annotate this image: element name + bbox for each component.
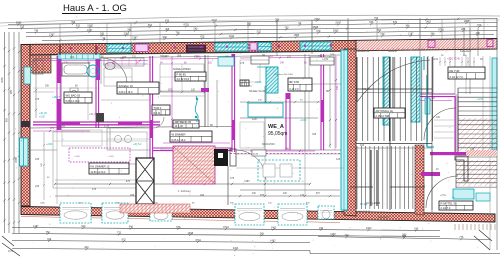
- svg-text:+46_5m: +46_5m: [133, 144, 141, 146]
- svg-text:405: 405: [360, 144, 365, 147]
- svg-text:40,26: 40,26: [253, 154, 259, 156]
- svg-text:Haus A - 1. OG: Haus A - 1. OG: [63, 3, 127, 14]
- svg-text:245: 245: [35, 158, 40, 161]
- svg-text:2403: 2403: [233, 247, 239, 250]
- svg-text:Schlafen W 240: Schlafen W 240: [249, 91, 266, 93]
- svg-text:938: 938: [130, 194, 135, 197]
- svg-text:875: 875: [393, 21, 398, 24]
- svg-text:243: 243: [319, 227, 324, 230]
- svg-text:W200/700: W200/700: [358, 50, 370, 53]
- svg-text:8,0 11: 8,0 11: [154, 112, 161, 115]
- svg-text:405,05m: 405,05m: [362, 88, 372, 91]
- svg-text:875: 875: [200, 35, 205, 38]
- svg-text:905: 905: [6, 117, 9, 122]
- svg-text:2,06: 2,06: [242, 79, 248, 83]
- svg-text:1080: 1080: [40, 203, 46, 205]
- svg-text:+4,85: +4,85: [74, 156, 80, 158]
- svg-text:1462: 1462: [229, 35, 235, 38]
- svg-text:1487: 1487: [330, 233, 336, 236]
- svg-text:1585: 1585: [87, 25, 93, 28]
- svg-text:346: 346: [312, 133, 317, 136]
- svg-text:ANTONIGL 0q: ANTONIGL 0q: [376, 109, 394, 113]
- svg-text:363: 363: [148, 24, 153, 27]
- svg-text:+46_06: +46_06: [39, 113, 47, 115]
- svg-text:2347: 2347: [211, 19, 217, 22]
- svg-text:16 Stg 18/25: 16 Stg 18/25: [366, 202, 381, 205]
- svg-text:1998: 1998: [188, 232, 194, 235]
- svg-text:11,50 11 24,4: 11,50 11 24,4: [91, 171, 107, 174]
- svg-text:363: 363: [377, 29, 382, 32]
- svg-text:128: 128: [336, 158, 341, 161]
- svg-text:766: 766: [374, 17, 379, 20]
- svg-text:750: 750: [284, 26, 289, 29]
- svg-text:1462: 1462: [425, 20, 431, 23]
- svg-text:1585: 1585: [333, 30, 339, 33]
- svg-text:525: 525: [20, 25, 25, 28]
- svg-text:2 1/2 12 7,0: 2 1/2 12 7,0: [450, 76, 464, 79]
- svg-text:1187: 1187: [87, 29, 93, 32]
- svg-text:1. Fahrweg: 1. Fahrweg: [178, 190, 191, 193]
- svg-text:+2,82: +2,82: [46, 143, 53, 146]
- svg-text:246: 246: [122, 56, 127, 59]
- svg-text:1585: 1585: [15, 157, 18, 163]
- svg-text:+0,00: +0,00: [300, 119, 307, 122]
- svg-text:8791: 8791: [195, 239, 201, 242]
- svg-text:+2,82: +2,82: [39, 117, 46, 119]
- svg-text:+2,51: +2,51: [432, 58, 439, 61]
- svg-text:875: 875: [122, 238, 127, 241]
- svg-text:285: 285: [100, 33, 105, 36]
- svg-text:+2,82: +2,82: [255, 81, 262, 84]
- svg-text:946: 946: [47, 238, 52, 241]
- svg-text:175: 175: [240, 62, 245, 65]
- svg-text:1,76: 1,76: [104, 125, 109, 128]
- svg-text:Gebehrt: Gebehrt: [388, 50, 397, 53]
- svg-text:475: 475: [230, 177, 235, 180]
- svg-text:3,06 17 15,0: 3,06 17 15,0: [119, 91, 134, 94]
- svg-text:2360: 2360: [314, 18, 320, 21]
- svg-text:8791: 8791: [438, 28, 444, 31]
- svg-text:775: 775: [459, 236, 464, 239]
- svg-text:1462: 1462: [271, 226, 277, 229]
- svg-text:+4,85: +4,85: [108, 156, 114, 158]
- svg-text:ABTRENN 05: ABTRENN 05: [175, 120, 192, 124]
- svg-text:346: 346: [127, 28, 132, 31]
- svg-text:NR 240: NR 240: [160, 55, 169, 58]
- svg-text:TUR 0: TUR 0: [154, 106, 162, 110]
- svg-text:5,06 12 13,9: 5,06 12 13,9: [66, 100, 81, 103]
- svg-text:16 9 16 9 16: 16 9 16 9 16: [358, 211, 371, 213]
- svg-text:946: 946: [200, 194, 205, 197]
- svg-text:+46_06: +46_06: [89, 114, 97, 116]
- svg-text:366: 366: [71, 21, 76, 24]
- svg-text:175: 175: [50, 127, 55, 130]
- svg-text:346: 346: [285, 148, 290, 151]
- svg-text:405: 405: [165, 28, 170, 31]
- svg-text:8,05 12 18,2: 8,05 12 18,2: [172, 139, 187, 142]
- svg-text:+2,51: +2,51: [440, 195, 447, 197]
- svg-text:876: 876: [477, 24, 482, 27]
- svg-text:Schlafen 19: Schlafen 19: [119, 84, 134, 88]
- svg-text:W ZIMMER: W ZIMMER: [172, 132, 186, 136]
- svg-text:875: 875: [260, 194, 265, 197]
- svg-text:979: 979: [316, 30, 321, 33]
- svg-text:+2,82: +2,82: [322, 58, 329, 61]
- svg-text:DD401/500: DD401/500: [262, 143, 275, 146]
- svg-text:BF STR: BF STR: [290, 80, 300, 84]
- svg-text:WE_A: WE_A: [268, 124, 284, 130]
- svg-text:525: 525: [257, 31, 262, 34]
- svg-text:2403: 2403: [366, 227, 372, 230]
- svg-text:349: 349: [260, 232, 265, 235]
- svg-text:Kabudach: Kabudach: [460, 50, 472, 53]
- svg-text:1187: 1187: [244, 180, 250, 183]
- svg-text:2 150,0 TAB: 2 150,0 TAB: [376, 115, 390, 118]
- svg-text:876: 876: [165, 20, 170, 23]
- svg-text:1187: 1187: [408, 33, 414, 36]
- svg-text:2347: 2347: [132, 36, 138, 39]
- svg-text:2 1/4 7,0: 2 1/4 7,0: [441, 207, 451, 210]
- svg-text:Schlafen RH240: Schlafen RH240: [173, 68, 191, 71]
- svg-text:KN ZIMMER 13: KN ZIMMER 13: [91, 164, 110, 168]
- svg-text:+46,07: +46,07: [52, 96, 60, 99]
- svg-text:2347: 2347: [336, 22, 342, 25]
- svg-text:1885: 1885: [464, 20, 470, 23]
- svg-text:1885: 1885: [294, 34, 300, 37]
- svg-text:749: 749: [380, 33, 385, 36]
- svg-text:775: 775: [117, 231, 122, 234]
- svg-text:306: 306: [177, 55, 182, 58]
- svg-text:750: 750: [402, 235, 407, 238]
- svg-text:1462: 1462: [270, 239, 276, 242]
- svg-text:2347: 2347: [49, 33, 55, 36]
- svg-text:240: 240: [193, 27, 198, 30]
- svg-text:946: 946: [369, 21, 374, 24]
- svg-text:749: 749: [34, 29, 39, 32]
- svg-text:750: 750: [46, 231, 51, 234]
- svg-text:243: 243: [84, 246, 89, 249]
- svg-text:104: 104: [70, 56, 75, 59]
- svg-text:1487: 1487: [33, 225, 39, 228]
- svg-text:+2,51 +2,46: +2,51 +2,46: [447, 58, 460, 61]
- svg-text:95,05qm: 95,05qm: [268, 131, 287, 137]
- svg-text:0,17 2,3: 0,17 2,3: [290, 88, 300, 91]
- svg-text:8791: 8791: [183, 23, 189, 26]
- svg-text:175: 175: [35, 98, 40, 101]
- svg-text:128: 128: [470, 148, 475, 151]
- svg-text:3688: 3688: [313, 26, 319, 29]
- svg-text:285: 285: [10, 89, 13, 94]
- svg-text:WG BAD 05: WG BAD 05: [66, 93, 81, 97]
- svg-text:Kabudach: Kabudach: [378, 216, 390, 219]
- svg-text:0,76: 0,76: [8, 249, 14, 253]
- svg-text:946: 946: [129, 225, 134, 228]
- svg-text:940: 940: [81, 225, 86, 228]
- svg-text:246: 246: [330, 54, 335, 57]
- svg-text:12 1,06: 12 1,06: [175, 125, 184, 128]
- svg-text:P 80 85: P 80 85: [177, 73, 187, 77]
- svg-text:8050/700: 8050/700: [62, 52, 72, 54]
- svg-text:475: 475: [126, 180, 131, 183]
- svg-text:RE TUR: RE TUR: [450, 69, 460, 73]
- svg-text:285: 285: [247, 23, 252, 26]
- svg-text:R MITTEL 3B: R MITTEL 3B: [441, 202, 457, 206]
- svg-text:475: 475: [92, 188, 97, 191]
- svg-text:766: 766: [176, 32, 181, 35]
- svg-text:240: 240: [345, 234, 350, 237]
- svg-text:120: 120: [191, 89, 196, 92]
- svg-text:946: 946: [163, 36, 168, 39]
- svg-text:366: 366: [405, 25, 410, 28]
- svg-text:139: 139: [300, 194, 305, 197]
- svg-text:285: 285: [461, 28, 466, 31]
- svg-text:3688: 3688: [16, 21, 22, 24]
- svg-text:Schlafens RH 2400: Schlafens RH 2400: [274, 74, 294, 76]
- svg-text:178: 178: [420, 158, 425, 161]
- svg-text:1050: 1050: [1, 77, 4, 83]
- svg-text:8791: 8791: [223, 226, 229, 229]
- svg-text:+2,51: +2,51: [477, 98, 484, 101]
- svg-text:979: 979: [76, 25, 81, 28]
- svg-text:875: 875: [176, 226, 181, 229]
- svg-text:2,64: 2,64: [60, 125, 65, 128]
- svg-text:1187: 1187: [252, 118, 258, 121]
- svg-text:3,0 12 15,8: 3,0 12 15,8: [177, 78, 190, 81]
- svg-text:346: 346: [430, 32, 435, 35]
- svg-text:285: 285: [275, 18, 280, 21]
- svg-text:2360: 2360: [124, 32, 130, 35]
- svg-text:240: 240: [414, 227, 419, 230]
- svg-text:246: 246: [336, 85, 339, 90]
